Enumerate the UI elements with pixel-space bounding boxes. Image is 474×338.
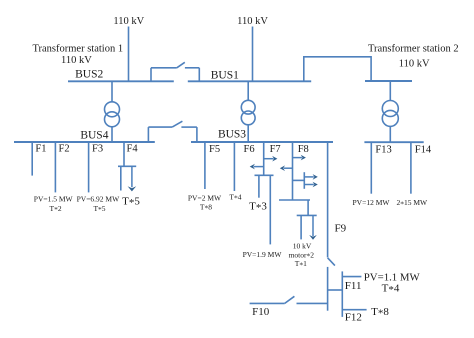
svg-text:T*1: T*1: [295, 259, 307, 269]
svg-text:F4: F4: [127, 144, 139, 155]
F8 sub right arrow 2: [304, 182, 318, 188]
svg-text:F5: F5: [209, 144, 220, 155]
transformer T2 (BUS1 to BUS3): [241, 81, 255, 142]
F4 tee bar: [118, 165, 136, 167]
wire 110 kV riser 2: [252, 27, 254, 82]
wire bus BUS2: [68, 80, 174, 82]
svg-text:F8: F8: [298, 144, 309, 155]
motor drop left: [300, 215, 302, 239]
svg-text:BUS2: BUS2: [75, 69, 103, 81]
svg-text:110 kV: 110 kV: [237, 16, 268, 27]
feeder F2 wire: [54, 142, 56, 192]
svg-text:Transformer station 2: Transformer station 2: [368, 43, 459, 54]
feeder F10 right wire: [297, 302, 328, 304]
F8 left arrow: [280, 165, 293, 171]
F7 left arrow: [250, 164, 264, 170]
F8 right arrow: [293, 155, 306, 161]
svg-text:F9: F9: [335, 222, 347, 234]
F8 sub bar: [303, 172, 305, 189]
wire bus BUS1: [188, 80, 311, 82]
feeder F3 wire: [88, 142, 90, 192]
svg-text:F3: F3: [92, 144, 103, 155]
feeder F14 wire: [410, 142, 412, 194]
feeder F1 wire: [31, 142, 33, 176]
feeder F9 upper wire: [327, 142, 329, 257]
F7 right arrow: [264, 156, 278, 162]
svg-text:PV=6.92 MW: PV=6.92 MW: [77, 194, 120, 203]
svg-text:BUS1: BUS1: [211, 70, 239, 82]
F7 short drop wire: [258, 175, 260, 197]
svg-text:T*4: T*4: [229, 193, 241, 203]
svg-text:F11: F11: [345, 280, 362, 292]
svg-text:110 kV: 110 kV: [113, 16, 144, 27]
transformer T1 (BUS2 to BUS4): [105, 81, 120, 142]
wire bus F13/F14 (station 2 LV): [364, 141, 423, 143]
wire bus BUS3: [191, 141, 333, 143]
svg-text:10 kV: 10 kV: [293, 241, 312, 250]
svg-text:F10: F10: [252, 306, 270, 318]
svg-text:T*5: T*5: [93, 204, 105, 214]
wire 110 kV riser 1: [128, 27, 130, 82]
svg-text:F2: F2: [59, 144, 70, 155]
svg-text:T*2: T*2: [50, 204, 62, 214]
svg-text:110 kV: 110 kV: [61, 55, 92, 66]
F12 stub wire: [342, 309, 366, 311]
feeder F8 wire: [292, 142, 294, 200]
F8 lower bar 1: [279, 199, 310, 201]
svg-text:PV=2 MW: PV=2 MW: [188, 193, 222, 202]
transformer T3 (station 2): [382, 81, 398, 142]
feeder F6 wire: [233, 142, 235, 191]
F4 load arrow: [128, 166, 137, 191]
feeder F5 wire: [204, 142, 206, 189]
F8 lower bar 2 (motor bus): [297, 214, 317, 216]
svg-text:PV=1.1 MW: PV=1.1 MW: [364, 272, 421, 284]
feeder F4 wire: [123, 142, 125, 166]
F11 stub wire: [342, 276, 361, 278]
switch S1 between BUS2 and BUS1: [151, 62, 199, 81]
svg-text:110 kV: 110 kV: [399, 58, 430, 69]
F10 switch blade: [285, 296, 295, 303]
feeder F13 wire: [370, 142, 372, 194]
wire bus station 2 110kV: [365, 80, 412, 82]
svg-text:F14: F14: [415, 144, 432, 155]
svg-text:F6: F6: [244, 144, 255, 155]
svg-text:F1: F1: [35, 144, 46, 155]
svg-text:motor*2: motor*2: [289, 250, 315, 260]
svg-text:2*15 MW: 2*15 MW: [396, 198, 428, 208]
feeder F7 wire: [263, 142, 265, 175]
svg-text:T*8: T*8: [371, 306, 389, 320]
svg-text:T*8: T*8: [200, 202, 212, 212]
svg-text:F13: F13: [375, 144, 391, 155]
svg-text:T*3: T*3: [249, 201, 267, 215]
F8 lower drop: [307, 200, 309, 215]
F7 long drop wire: [269, 175, 271, 244]
motor drop right with arrow: [309, 215, 317, 239]
svg-text:BUS4: BUS4: [80, 130, 108, 142]
F8 sub right arrow 1: [304, 174, 318, 180]
wire sub-bus F11/F12: [341, 271, 343, 317]
wire bus BUS4: [14, 141, 155, 143]
feeder F10 left wire: [250, 302, 285, 304]
svg-text:PV=1.9 MW: PV=1.9 MW: [243, 250, 283, 259]
svg-text:PV=12 MW: PV=12 MW: [353, 198, 391, 207]
wire connector F9 to sub-bus: [328, 289, 343, 291]
F4 left drop wire: [120, 166, 122, 190]
F7 tee bar: [255, 174, 274, 176]
wire link BUS1 to station 2: [304, 57, 371, 82]
svg-text:BUS3: BUS3: [218, 129, 246, 141]
switch S2 between BUS4 and BUS3: [148, 121, 197, 142]
svg-text:F12: F12: [345, 312, 362, 324]
svg-text:T*5: T*5: [122, 196, 140, 210]
svg-text:T*4: T*4: [382, 282, 400, 296]
feeder F9 lower wire: [327, 267, 329, 311]
svg-text:Transformer station 1: Transformer station 1: [32, 43, 123, 54]
svg-text:F7: F7: [270, 144, 281, 155]
F8 sub connector: [293, 179, 305, 181]
F9 switch blade: [328, 258, 335, 266]
svg-text:PV=1.5 MW: PV=1.5 MW: [34, 194, 74, 203]
